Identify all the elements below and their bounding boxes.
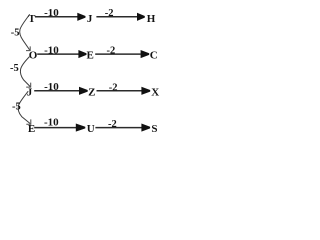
svg-text:J: J <box>27 87 33 99</box>
svg-text:H: H <box>147 13 156 25</box>
arrowhead into Z <box>79 87 88 95</box>
svg-text:J: J <box>87 13 93 25</box>
wire E to U <box>34 127 76 129</box>
wire E to C <box>95 53 141 55</box>
svg-text:X: X <box>151 87 159 99</box>
wire Z to X <box>97 90 142 92</box>
svg-text:-2: -2 <box>107 45 116 56</box>
arrowhead into E (row 2) <box>78 50 86 58</box>
arrowhead into C <box>141 50 150 58</box>
svg-text:E: E <box>86 50 93 62</box>
svg-text:-10: -10 <box>44 116 59 128</box>
svg-text:-2: -2 <box>109 82 118 93</box>
arrowhead into U <box>76 124 86 132</box>
svg-text:E: E <box>28 123 35 135</box>
svg-text:O: O <box>29 50 38 62</box>
arrowhead into S <box>141 124 150 132</box>
arrowhead into J (row 1) <box>77 13 85 21</box>
wire J to Z <box>34 90 79 92</box>
wire J to H <box>96 16 137 18</box>
svg-text:-2: -2 <box>108 119 117 130</box>
arrowhead into O (open) <box>26 46 30 50</box>
svg-text:C: C <box>150 50 158 62</box>
svg-text:S: S <box>151 123 157 135</box>
arrowhead into H <box>137 13 145 21</box>
svg-text:-5: -5 <box>10 63 19 74</box>
arrowhead into J row3 (open) <box>26 83 31 88</box>
cipher shift diagram <box>0 0 175 149</box>
arrowhead into E row4 (open) <box>26 119 31 124</box>
svg-text:-10: -10 <box>44 81 59 93</box>
svg-text:-10: -10 <box>44 7 59 19</box>
svg-text:-10: -10 <box>44 45 59 57</box>
wire O to E <box>37 53 78 55</box>
wire T to O (curved connector) <box>20 14 30 50</box>
svg-text:-5: -5 <box>11 28 20 39</box>
svg-text:U: U <box>87 123 95 135</box>
svg-text:-2: -2 <box>105 8 114 19</box>
arrowhead into X <box>141 87 150 95</box>
svg-text:Z: Z <box>88 87 95 99</box>
wire T to J <box>35 16 78 18</box>
svg-text:-5: -5 <box>12 101 21 112</box>
wire U to S <box>95 127 141 129</box>
wire J to E (curved connector) <box>18 91 30 123</box>
wire O to J (curved connector) <box>20 57 30 87</box>
